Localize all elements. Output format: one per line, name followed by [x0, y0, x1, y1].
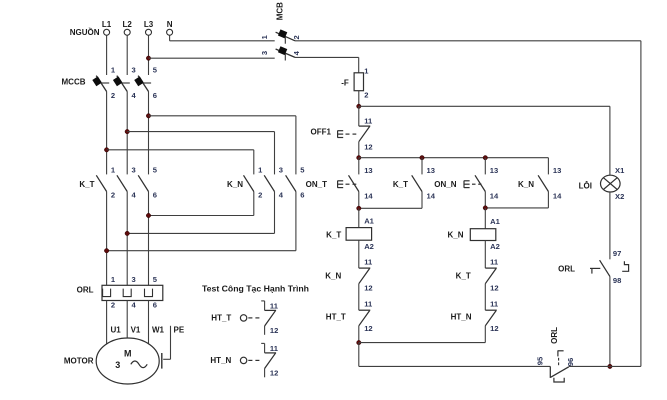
svg-text:12: 12	[364, 324, 372, 333]
wire MCB pole 2 to right-hand rail	[295, 40, 641, 42]
wire L3 junction to K_N pole 5	[149, 116, 296, 175]
junction K_N pole 6 with L1 column	[104, 249, 108, 253]
svg-text:A2: A2	[364, 242, 374, 251]
overload relay ORL (3-pole thermal)	[77, 275, 163, 309]
svg-text:N: N	[167, 20, 173, 29]
svg-text:V1: V1	[131, 325, 141, 334]
svg-text:2: 2	[364, 90, 368, 99]
interlock contact K_T 11-12 (NC)	[456, 258, 499, 311]
svg-text:12: 12	[270, 326, 278, 335]
svg-text:L2: L2	[123, 20, 133, 29]
wire right-hand rail down to bottom rail	[640, 41, 642, 367]
junction rail to ON_N branch	[483, 156, 487, 160]
wire junction down to bottom rail	[358, 343, 360, 367]
terminal N	[167, 20, 173, 36]
svg-text:-F: -F	[341, 78, 349, 87]
junction fuse output / lamp rail	[357, 104, 361, 108]
wire K_T pole 2 down to ORL pole 1	[106, 192, 108, 286]
svg-text:14: 14	[364, 192, 373, 201]
wire MCB pole 4 to fuse F	[295, 57, 359, 72]
junction K_N aux rejoin ON_N branch	[483, 206, 487, 210]
junction on L1 feeding K_N pole 1	[104, 148, 108, 152]
svg-text:3: 3	[115, 360, 120, 370]
K_N pole 5-6	[286, 166, 306, 200]
svg-text:6: 6	[153, 91, 157, 100]
svg-text:K_T: K_T	[393, 180, 408, 189]
wire branch-bottom rail	[359, 342, 486, 344]
junction on L3 feeding MCB	[146, 56, 150, 60]
pushbutton ON_N (NO)	[434, 158, 499, 208]
wire K_T pole 6 down to ORL pole 5	[148, 192, 150, 286]
svg-text:6: 6	[300, 191, 304, 200]
svg-text:2: 2	[111, 301, 115, 310]
contactor coil K_N A1-A2	[447, 208, 500, 268]
svg-text:11: 11	[364, 116, 373, 125]
wire fuse to control rail junction	[358, 91, 360, 107]
svg-text:MCCB: MCCB	[62, 78, 86, 87]
wire L2 junction to K_N pole 3	[127, 132, 274, 175]
wire K_T pole 4 down to ORL pole 3	[126, 192, 128, 286]
limit switch contact HT_N 11-12 (NC)	[451, 300, 499, 343]
wire L1 terminal to MCCB pole 1	[106, 35, 108, 75]
svg-text:L1: L1	[102, 20, 112, 29]
svg-text:2: 2	[258, 191, 262, 200]
svg-text:LỖI: LỖI	[579, 181, 592, 190]
wire PE to motor frame	[163, 326, 170, 360]
wire ORL 96 to right rail corner	[569, 365, 641, 367]
svg-text:K_T: K_T	[326, 230, 341, 239]
svg-text:3: 3	[260, 51, 269, 55]
svg-text:HT_N: HT_N	[210, 356, 231, 365]
wire ORL pole 2 to motor U1	[106, 301, 108, 345]
K_T pole 5-6	[138, 166, 158, 200]
svg-text:3: 3	[132, 66, 136, 75]
svg-text:13: 13	[364, 166, 372, 175]
wire L3 junction to MCB pole 3	[149, 57, 275, 59]
K_N pole 3-4	[264, 166, 284, 200]
wire L1 junction to K_N pole 1	[107, 150, 254, 175]
svg-text:95: 95	[535, 356, 544, 365]
K_N pole 1-2	[244, 166, 264, 200]
svg-text:98: 98	[613, 276, 621, 285]
wire L3 terminal to MCCB pole 5	[148, 35, 150, 75]
K_T pole 3-4	[117, 166, 137, 200]
svg-text:K_T: K_T	[456, 272, 471, 281]
wire K_N pole 6 to L1 motor column	[107, 192, 296, 251]
wire K_N pole 2 to L3 motor column	[149, 192, 254, 216]
svg-text:11: 11	[364, 258, 373, 267]
pushbutton OFF1 (NC)	[311, 106, 373, 157]
svg-text:96: 96	[566, 358, 575, 366]
fuse -F	[341, 67, 369, 100]
MCCB pole 3-4	[113, 66, 137, 100]
svg-text:12: 12	[270, 368, 278, 377]
svg-text:M: M	[124, 348, 132, 358]
svg-text:11: 11	[364, 300, 373, 309]
svg-text:HT_T: HT_T	[326, 313, 346, 322]
wire L2 MCCB out to K_T pole 3	[126, 92, 128, 175]
K_T pole 1-2	[96, 166, 116, 200]
overload relay contact ORL 95-96 (NC, horizontal)	[535, 327, 575, 382]
wire control top rail to lamp branch	[359, 105, 610, 107]
svg-text:11: 11	[270, 344, 279, 353]
wire K_N pole 4 to L2 motor column	[127, 192, 274, 234]
terminal L2	[123, 20, 133, 36]
svg-text:6: 6	[153, 301, 157, 310]
junction K_N pole 4 with L2 column	[125, 231, 129, 235]
motor frame bar	[161, 353, 163, 369]
svg-text:13: 13	[490, 166, 498, 175]
svg-text:OFF1: OFF1	[311, 127, 332, 136]
wire L2 terminal to MCCB pole 3	[126, 35, 128, 75]
pushbutton ON_T (NO)	[306, 158, 374, 209]
svg-text:MCB: MCB	[276, 2, 285, 20]
MCCB pole 1-2	[92, 66, 116, 100]
svg-text:11: 11	[490, 258, 499, 267]
svg-text:MOTOR: MOTOR	[64, 357, 94, 366]
svg-text:12: 12	[490, 324, 498, 333]
svg-text:K_N: K_N	[447, 231, 463, 240]
junction K_T aux rejoin main branch	[357, 206, 361, 210]
svg-text:HT_N: HT_N	[451, 313, 472, 322]
test pushbutton HT_N (NC)	[210, 343, 278, 377]
svg-text:14: 14	[490, 192, 499, 201]
motor M 3-phase	[64, 338, 159, 384]
overload relay contact ORL 97-98 (NO)	[558, 249, 628, 285]
svg-text:13: 13	[553, 166, 561, 175]
svg-text:X1: X1	[615, 166, 625, 175]
contactor coil K_T A1-A2	[326, 208, 375, 268]
MCB pole 3-4	[260, 46, 301, 60]
svg-text:K_N: K_N	[227, 180, 243, 189]
svg-text:NGUỒN: NGUỒN	[70, 27, 100, 37]
svg-text:ON_N: ON_N	[434, 180, 456, 189]
test pushbutton HT_T (NC)	[211, 301, 278, 335]
svg-text:L3: L3	[144, 20, 154, 29]
MCCB pole 5-6	[134, 66, 158, 100]
junction OFF1 output rail	[357, 156, 361, 160]
svg-text:ORL: ORL	[77, 286, 94, 295]
indicator lamp LOI X1-X2	[579, 106, 625, 201]
svg-text:HT_T: HT_T	[211, 314, 231, 323]
svg-text:2: 2	[111, 91, 115, 100]
svg-text:6: 6	[153, 191, 157, 200]
svg-text:97: 97	[613, 249, 621, 258]
svg-text:A1: A1	[364, 217, 374, 226]
svg-text:3: 3	[279, 166, 283, 175]
junction K_N pole 2 with L3 column	[146, 213, 150, 217]
interlock contact K_N 11-12 (NC)	[325, 258, 373, 311]
svg-text:ON_T: ON_T	[306, 180, 327, 189]
terminal L1	[102, 20, 112, 36]
svg-text:3: 3	[132, 275, 136, 284]
wire contact rail 13	[359, 157, 549, 159]
wire ORL 98 down to bottom rail	[609, 276, 611, 366]
junction bottom of coil branches	[357, 340, 361, 344]
svg-text:12: 12	[490, 284, 498, 293]
wire lamp to ORL 97	[609, 192, 611, 259]
auxiliary contact K_T 13-14 (NO)	[359, 158, 436, 209]
junction lamp branch with bottom rail	[608, 364, 612, 368]
svg-text:12: 12	[364, 143, 372, 152]
auxiliary contact K_N 13-14 (NO)	[485, 158, 562, 208]
svg-text:14: 14	[553, 192, 562, 201]
svg-text:W1: W1	[152, 325, 165, 334]
svg-text:A2: A2	[490, 242, 500, 251]
circuit breaker MCB (2-pole, rotated)	[276, 2, 285, 20]
wire L1 MCCB out to K_T pole 1	[106, 92, 108, 175]
wire N terminal to MCB pole 1	[170, 35, 275, 40]
svg-text:K_N: K_N	[325, 272, 341, 281]
svg-text:11: 11	[490, 300, 499, 309]
junction rail to K_T aux	[420, 156, 424, 160]
svg-text:Test Công Tạc Hạnh Trình: Test Công Tạc Hạnh Trình	[202, 284, 309, 294]
svg-text:ORL: ORL	[550, 327, 559, 344]
wire bottom rail to ORL 95	[359, 365, 551, 367]
svg-text:14: 14	[427, 192, 436, 201]
junction on L3 feeding K_N pole 5	[146, 114, 150, 118]
svg-text:K_N: K_N	[518, 180, 534, 189]
svg-text:U1: U1	[111, 325, 122, 334]
MCB pole 1-2	[260, 29, 301, 43]
svg-text:11: 11	[270, 301, 279, 310]
svg-text:X2: X2	[615, 192, 624, 201]
junction on L2 feeding K_N pole 3	[125, 129, 129, 133]
wire L3 MCCB out to K_T pole 5	[148, 92, 150, 175]
svg-text:12: 12	[364, 284, 372, 293]
terminal L3	[144, 20, 154, 36]
svg-text:PE: PE	[174, 325, 185, 334]
svg-text:2: 2	[292, 35, 301, 39]
wire ORL pole 4 to motor V1	[126, 301, 128, 339]
limit switch contact HT_T 11-12 (NC)	[326, 300, 373, 343]
svg-text:K_T: K_T	[79, 180, 94, 189]
svg-text:2: 2	[111, 191, 115, 200]
wire ORL pole 6 to motor W1	[148, 301, 150, 345]
svg-text:ORL: ORL	[558, 264, 575, 273]
svg-text:13: 13	[427, 166, 435, 175]
svg-text:A1: A1	[490, 217, 500, 226]
svg-text:3: 3	[132, 166, 136, 175]
